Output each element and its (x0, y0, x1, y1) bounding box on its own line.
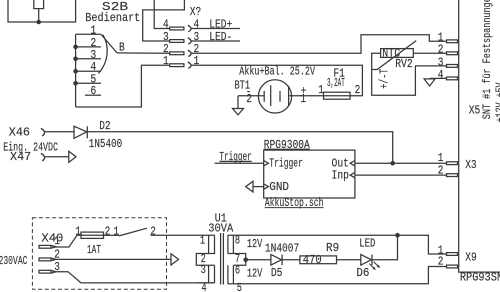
svg-text:1: 1 (300, 92, 306, 106)
battery cell long bar (288, 86, 290, 105)
switch S2B pin 4 contact (76, 70, 101, 72)
switch S2B pin 1 contact (76, 33, 101, 35)
svg-text:4: 4 (201, 281, 206, 292)
svg-text:230VAC: 230VAC (0, 254, 28, 268)
wire D6 up to pin8 net (372, 235, 398, 260)
fuse 1AT body (81, 232, 104, 238)
svg-text:2: 2 (438, 163, 444, 177)
svg-text:RV2: RV2 (395, 57, 413, 71)
junction dot node top-left (36, 20, 41, 25)
wire D5 to R9 (282, 259, 300, 261)
sheet block RPG93SNT edge (459, 0, 500, 272)
svg-text:LED-: LED- (209, 30, 232, 44)
svg-text:3,2AT: 3,2AT (327, 76, 345, 90)
wire X40 pin1 to fuse (53, 235, 82, 247)
svg-text:2: 2 (105, 224, 111, 238)
wire Inp to X3 pin2 (355, 174, 446, 176)
connector X5 pin 4 (447, 77, 458, 80)
junction dot LED net (395, 233, 400, 238)
sheet file AkkuStop.sch underline (265, 207, 324, 209)
svg-text:3: 3 (201, 263, 206, 277)
svg-text:2: 2 (355, 83, 361, 97)
wire from top to X? pin3 (143, 0, 185, 41)
svg-text:X46: X46 (9, 126, 30, 140)
wire X46 to D2 (45, 131, 74, 133)
wire pin5 to X9 pin2 (244, 267, 447, 284)
connector X? pin 1 socket arc (188, 62, 191, 68)
svg-text:2: 2 (246, 92, 252, 106)
svg-text:12V: 12V (247, 266, 263, 280)
wire from top to X? pin4 (154, 0, 170, 29)
svg-text:1: 1 (194, 54, 200, 68)
arrow symbol X40 pin2 (171, 254, 179, 265)
wire X5 pin4 to ground (430, 77, 446, 79)
thermistor RV2 strike line (372, 41, 417, 70)
wire X47 to arrow (45, 156, 69, 158)
connector X5 pin 2 (447, 52, 458, 55)
wire resistor to junction (38, 9, 40, 22)
resistor R9 body (300, 256, 337, 264)
arrow symbol GND (246, 181, 253, 192)
wire X40 pin3 to transformer pin4 (53, 272, 215, 283)
switch S2B pin 2 contact (76, 46, 101, 48)
svg-text:RPG93SNT.SCH: RPG93SNT.SCH (460, 271, 500, 285)
transformer U1 secondary tap (pins 7-6) (233, 254, 245, 266)
connector X40 pin 1 (39, 245, 51, 248)
wire D2 to X3 net (87, 132, 392, 163)
connector X5 pin 3 (447, 65, 458, 68)
connector X? pin 4 header (170, 27, 184, 30)
svg-text:SNT #1 für Festspannungen: SNT #1 für Festspannungen (482, 0, 494, 119)
battery cell long bar (270, 85, 272, 106)
battery cell short bar (279, 91, 281, 102)
svg-text:4: 4 (438, 68, 444, 82)
transformer U1 secondary winding upper (228, 235, 234, 253)
LED D6 arrows (369, 262, 379, 270)
switch S2B pin 5 contact (76, 82, 101, 84)
diode D2 (74, 126, 87, 138)
wire battery positive to fuse (289, 95, 324, 97)
svg-text:+/-T: +/-T (377, 69, 391, 89)
LED D6 arrowheads (372, 265, 380, 270)
svg-text:+12V +5V: +12V +5V (495, 82, 500, 122)
svg-text:6: 6 (235, 264, 240, 278)
sheet port Trigger glyph (264, 161, 269, 166)
junction dot pin7 tap (243, 258, 248, 263)
wire NTC left to X5 pin3 loop (372, 53, 446, 95)
svg-text:D2: D2 (99, 119, 110, 133)
wire switch bottom to X? pin1 (76, 65, 170, 107)
sheet port Out glyph (350, 161, 355, 166)
svg-text:5: 5 (237, 281, 242, 292)
svg-text:470: 470 (303, 253, 322, 267)
svg-text:1N4007: 1N4007 (265, 242, 299, 256)
svg-text:1: 1 (113, 224, 119, 238)
svg-text:1AT: 1AT (87, 243, 101, 257)
wire top-left box (8, 0, 76, 22)
svg-text:D6: D6 (356, 266, 369, 280)
arrow symbol X47 (69, 151, 76, 162)
junction dot pin4 (73, 69, 78, 74)
sheet port GND glyph (264, 184, 269, 189)
connector X46 socket arc (41, 128, 45, 136)
wire fuse to switch (104, 234, 120, 236)
ground symbol X5 pin4 (424, 79, 435, 86)
ground symbol battery (233, 109, 244, 115)
connector X? pin 3 socket arc (188, 38, 191, 44)
svg-text:1N5400: 1N5400 (89, 137, 122, 151)
svg-text:AkkuStop.sch: AkkuStop.sch (265, 196, 324, 210)
connector X9 pin 1 (447, 253, 458, 256)
wire LED- stub (191, 40, 240, 42)
battery BT1 circle (258, 80, 291, 113)
wire X40 pin2 to arrow (53, 258, 172, 260)
dashed enclosure box (32, 218, 166, 289)
wire GND arrow (253, 186, 264, 188)
svg-text:X40: X40 (41, 232, 63, 246)
connector X? pin 2 socket arc (188, 50, 191, 56)
svg-text:X47: X47 (10, 150, 31, 164)
connector X40 pin 3 (39, 270, 51, 273)
wire X? pin1 to fuse F1 (191, 65, 363, 96)
wire switch to transformer pin1 (151, 234, 198, 236)
connector X3 pin 2 (447, 174, 458, 177)
svg-text:D5: D5 (271, 266, 283, 280)
junction dot pin5 (73, 81, 78, 86)
wire battery negative (238, 95, 264, 97)
switch S2B wiper arc (98, 35, 107, 74)
svg-text:1: 1 (163, 54, 169, 68)
wire R9 to D6 (337, 259, 361, 261)
wire pin8 to X9 net (244, 234, 398, 236)
svg-text:2: 2 (150, 224, 156, 238)
junction dot pin2 (73, 45, 78, 50)
transformer U1 primary winding lower (209, 265, 215, 283)
connector X? pin 1 header (170, 64, 184, 67)
connector X? pin 3 header (170, 40, 184, 43)
svg-text:Trigger: Trigger (219, 150, 251, 164)
connector X47 socket arc (41, 153, 45, 161)
wire B to X? pin2 (117, 52, 170, 54)
LED D6 (361, 255, 372, 266)
junction dot Out/D2 (390, 161, 395, 166)
connector X5 pin 1 (447, 40, 458, 43)
transformer U1 secondary winding lower (228, 265, 234, 284)
transformer U1 primary top edge (pin1) (198, 234, 215, 236)
svg-text:GND: GND (269, 180, 289, 194)
svg-text:X3: X3 (465, 158, 477, 172)
wire LED+ stub (191, 28, 240, 30)
diode D5 (271, 255, 282, 266)
wire NTC right to X5 pin2 (413, 52, 446, 54)
svg-text:Inp: Inp (332, 168, 350, 182)
wire X? pin2 to X5 pin1 (191, 35, 446, 54)
connector X? pin 4 socket arc (188, 25, 191, 31)
connector X? pin 2 header (170, 52, 184, 55)
wire Trigger to sheet (215, 162, 264, 164)
svg-text:12V: 12V (247, 237, 263, 251)
junction dot pin3 (73, 57, 78, 62)
sheet port Inp glyph (350, 172, 355, 177)
svg-text:X5: X5 (469, 103, 481, 117)
fuse F1 body (324, 92, 351, 99)
transformer U1 secondary bottom edge (pin5) (228, 283, 244, 285)
svg-text:8: 8 (235, 233, 240, 247)
svg-text:1: 1 (200, 233, 205, 247)
fuse 1AT middle line (81, 234, 104, 236)
switch S2B common vertical wire (75, 34, 77, 107)
switch S2B pin 3 contact (76, 58, 101, 60)
svg-text:LED: LED (359, 237, 375, 251)
thermistor RV2 body (381, 49, 414, 58)
transformer U1 primary winding upper (196, 235, 214, 265)
svg-text:Akku+Bal. 25.2V: Akku+Bal. 25.2V (239, 64, 315, 78)
connector X3 pin 1 (447, 162, 458, 165)
svg-text:1: 1 (54, 234, 60, 248)
svg-text:Trigger: Trigger (269, 156, 303, 170)
svg-text:R9: R9 (326, 241, 339, 255)
svg-text:6: 6 (90, 84, 96, 98)
wire to ground at battery (237, 96, 239, 109)
net label Trigger underline (219, 160, 251, 162)
connector X40 pin 2 (39, 258, 51, 261)
svg-text:B: B (119, 40, 125, 54)
sheet name RPG9300A underline (264, 148, 310, 150)
wire Out to X3 pin1 (355, 162, 446, 164)
transformer U1 primary bottom edge (pin4) (198, 282, 215, 284)
fuse F1 middle line (324, 95, 351, 97)
switch S2B wiper blade (101, 34, 117, 53)
wire to X9 pin1 (398, 235, 447, 254)
transformer U1 core lines (221, 233, 224, 285)
transformer U1 secondary top edge (pin8) (228, 234, 244, 236)
svg-text:2: 2 (438, 255, 444, 269)
resistor R (top-left, cut by image top) (34, 0, 44, 9)
svg-text:1: 1 (75, 224, 81, 238)
svg-text:RPG9300A: RPG9300A (264, 138, 311, 152)
sheet symbol RPG9300A box (264, 150, 355, 198)
wire tap to D5 (246, 259, 271, 261)
switch S2B pin 6 contact (not connected) (85, 94, 101, 96)
connector X9 pin 2 (447, 265, 458, 268)
battery cell short bar (263, 91, 265, 102)
svg-text:X9: X9 (465, 250, 477, 264)
switch blade (mains) (119, 228, 147, 236)
